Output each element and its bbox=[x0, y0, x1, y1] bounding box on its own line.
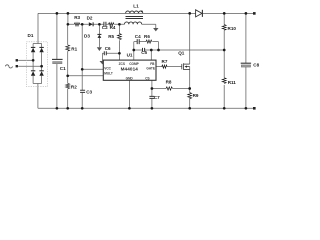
ground arrow C6 bbox=[100, 61, 106, 64]
wire FB stub bbox=[150, 50, 152, 60]
wire bridge top tee bbox=[33, 44, 42, 48]
diode D1c bottom-left bbox=[31, 70, 35, 72]
svg-text:GATE: GATE bbox=[146, 66, 155, 70]
diode D1d bottom-right bbox=[39, 70, 43, 72]
diode D1b top-right bbox=[39, 46, 43, 48]
node aux D3 bbox=[98, 23, 101, 26]
svg-text:COMP: COMP bbox=[129, 62, 139, 66]
svg-text:R6: R6 bbox=[144, 34, 150, 39]
svg-text:GND: GND bbox=[126, 77, 134, 81]
wire COMP stub bbox=[133, 42, 135, 61]
node top rail C1 bbox=[56, 12, 59, 15]
wire R10 R11 branch bbox=[223, 13, 225, 108]
diode D2 bbox=[87, 15, 94, 26]
wire bridge left column bbox=[32, 52, 34, 70]
node top rail C8 bbox=[245, 12, 248, 15]
wire C1 branch bbox=[56, 13, 58, 108]
svg-text:R5: R5 bbox=[108, 34, 114, 39]
svg-text:L1: L1 bbox=[133, 3, 139, 8]
AC source symbol bbox=[5, 65, 12, 68]
wire AC upper bbox=[18, 59, 33, 61]
svg-text:VCC: VCC bbox=[104, 67, 111, 71]
wire R1 R2 branch bbox=[67, 13, 69, 108]
node CS C7 R8 bbox=[151, 87, 154, 90]
wire C8 branch bbox=[245, 13, 247, 108]
diode D1a top-left bbox=[31, 46, 35, 48]
wire Q1 drain bbox=[189, 13, 191, 64]
capacitor C7 bbox=[149, 95, 160, 100]
node top rail drain bbox=[188, 12, 191, 15]
capacitor C3 bbox=[80, 90, 92, 95]
wire CS stub bbox=[151, 80, 153, 88]
resistor R4 bbox=[109, 23, 116, 30]
svg-text:R11: R11 bbox=[228, 80, 237, 85]
node rail R11 bottom bbox=[223, 107, 226, 110]
wire R5 branch bbox=[118, 24, 120, 60]
wire R8 row bbox=[152, 88, 190, 90]
wire bottom rail bbox=[38, 107, 253, 109]
resistor R6 bbox=[144, 34, 152, 43]
wire VCC branch bbox=[81, 24, 83, 108]
node rail GND bottom bbox=[128, 107, 131, 110]
node FB stub bbox=[150, 49, 153, 52]
ground arrow D3 bbox=[97, 47, 102, 51]
wire top rail left drop to bridge bbox=[37, 13, 39, 43]
resistor R1 bbox=[66, 45, 78, 52]
diode D4 bbox=[196, 10, 203, 17]
svg-text:R2: R2 bbox=[71, 84, 77, 89]
node aux R1 bbox=[67, 23, 70, 26]
resistor R3 bbox=[74, 15, 80, 26]
svg-text:C2: C2 bbox=[102, 25, 108, 30]
output terminal top bbox=[253, 12, 256, 15]
inductor L1 secondary bbox=[125, 22, 142, 24]
capacitor C2 bbox=[102, 22, 108, 30]
bridge D1 dashed box bbox=[26, 42, 47, 87]
svg-text:C3: C3 bbox=[86, 90, 92, 95]
svg-text:CS: CS bbox=[145, 77, 149, 81]
ground arrow L1 secondary bbox=[153, 28, 158, 31]
inductor L1 primary bbox=[125, 11, 144, 24]
node FB divider bbox=[223, 49, 226, 52]
svg-text:Q1: Q1 bbox=[178, 51, 185, 56]
svg-text:C6: C6 bbox=[105, 46, 111, 51]
wire top rail bbox=[38, 12, 253, 14]
wire AC lower bbox=[18, 65, 41, 67]
svg-text:C1: C1 bbox=[60, 66, 66, 71]
svg-text:R4: R4 bbox=[110, 25, 116, 30]
svg-text:R3: R3 bbox=[74, 15, 80, 20]
capacitor C4 bbox=[135, 34, 141, 44]
svg-text:C4: C4 bbox=[135, 34, 141, 39]
wire comp line y50 bbox=[134, 49, 224, 51]
wire bridge right column bbox=[41, 52, 43, 70]
wire VCC to IC bbox=[82, 68, 103, 70]
node comp left bbox=[132, 49, 135, 52]
wire R9 branch bbox=[189, 89, 191, 109]
svg-text:M44014: M44014 bbox=[121, 67, 139, 72]
wire Q1 source bbox=[189, 67, 191, 89]
wire D3 branch bbox=[98, 24, 100, 47]
IC U1 box bbox=[103, 60, 156, 80]
wire C4 R6 snubber row bbox=[134, 41, 159, 43]
AC terminal lower bbox=[16, 65, 18, 67]
svg-text:R7: R7 bbox=[162, 59, 168, 64]
svg-text:U1: U1 bbox=[127, 53, 133, 58]
resistor R2 bbox=[66, 83, 77, 89]
node VCC pin bbox=[81, 68, 84, 71]
svg-text:D3: D3 bbox=[84, 33, 90, 38]
svg-text:R1: R1 bbox=[71, 47, 77, 52]
svg-text:MULT: MULT bbox=[104, 72, 113, 76]
L1 polarity dot bbox=[141, 11, 143, 13]
resistor R7 bbox=[162, 59, 168, 68]
svg-text:R8: R8 bbox=[166, 79, 172, 84]
node bridge right tap bbox=[40, 65, 43, 68]
wire bridge bottom tee bbox=[33, 76, 42, 109]
svg-text:C5: C5 bbox=[141, 50, 147, 55]
node ZCD R5 C6 bbox=[118, 52, 121, 55]
wire C7 branch bbox=[151, 89, 153, 109]
svg-text:ZCS: ZCS bbox=[119, 62, 125, 66]
svg-text:D1: D1 bbox=[28, 33, 34, 38]
wire R6 right stub bbox=[158, 42, 160, 50]
svg-text:D2: D2 bbox=[87, 15, 93, 20]
node R6 stub bbox=[157, 49, 160, 52]
resistor R8 bbox=[166, 79, 173, 90]
node top rail R10 bbox=[223, 12, 226, 15]
resistor R9 bbox=[188, 93, 199, 99]
node rail C3 bottom bbox=[81, 107, 84, 110]
svg-text:C7: C7 bbox=[154, 95, 160, 100]
resistor R11 bbox=[222, 78, 236, 85]
L1 core bbox=[126, 17, 144, 19]
node aux VCC bbox=[81, 23, 84, 26]
node rail R9 bottom bbox=[188, 107, 191, 110]
capacitor C5 bbox=[141, 48, 147, 55]
wire C6 gnd branch bbox=[102, 53, 119, 61]
node rail C8 bottom bbox=[245, 107, 248, 110]
capacitor C1 bbox=[52, 59, 66, 71]
transistor Q1 mosfet bbox=[182, 63, 190, 70]
output terminal bottom bbox=[253, 107, 256, 110]
resistor R10 bbox=[222, 25, 236, 31]
node MULT pin bbox=[66, 74, 69, 77]
node aux R5 bbox=[118, 23, 121, 26]
node top rail R1 bbox=[67, 12, 70, 15]
svg-text:R9: R9 bbox=[193, 93, 199, 98]
wire aux line y24 bbox=[68, 24, 156, 28]
zener D3 bbox=[84, 33, 101, 38]
wire gate from IC bbox=[156, 66, 182, 68]
wire GND stub bbox=[128, 80, 130, 108]
node bridge left tap bbox=[32, 59, 35, 62]
node rail C7 bottom bbox=[151, 107, 154, 110]
svg-text:R10: R10 bbox=[228, 26, 237, 31]
capacitor C8 bbox=[241, 62, 260, 67]
wire MULT to IC bbox=[68, 75, 104, 77]
node rail R2 bottom bbox=[66, 107, 69, 110]
AC terminal upper bbox=[16, 59, 18, 61]
resistor R5 bbox=[108, 34, 121, 40]
capacitor C6 bbox=[104, 46, 111, 55]
node rail C1 bottom bbox=[56, 107, 59, 110]
svg-text:C8: C8 bbox=[253, 62, 259, 67]
node source R8 R9 bbox=[188, 87, 191, 90]
